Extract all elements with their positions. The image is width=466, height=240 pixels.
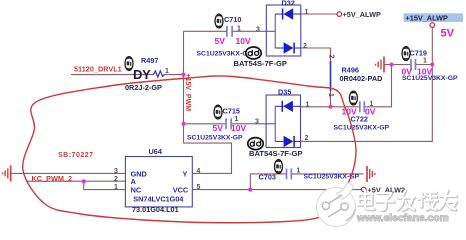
junction node rail/C715 — [182, 122, 186, 126]
svg-text:3: 3 — [255, 119, 259, 126]
svg-text:10V: 10V — [417, 66, 432, 76]
svg-text:R497: R497 — [141, 56, 158, 65]
power port +5V_ALWP — [337, 10, 381, 19]
resistor R497 — [125, 56, 169, 92]
svg-text:+5V_ALWP: +5V_ALWP — [343, 10, 381, 19]
stamp near R497 — [125, 57, 133, 71]
wire D32 pin2 down to R496 — [301, 48, 331, 61]
svg-text:NC: NC — [131, 186, 142, 195]
svg-text:0V: 0V — [365, 107, 376, 117]
inverter U64 — [114, 147, 201, 214]
svg-text:51120_DRVL1: 51120_DRVL1 — [74, 65, 122, 74]
capacitor C715 — [187, 106, 243, 141]
net label 51120_DRVL1 — [74, 65, 122, 74]
svg-text:C710: C710 — [224, 15, 241, 24]
svg-text:1: 1 — [306, 101, 310, 108]
wire C710 to D32 pin3 — [233, 30, 267, 32]
svg-text:1: 1 — [235, 116, 239, 123]
wire C715 to D35 pin3 — [232, 123, 266, 125]
junction node ground/C719 — [390, 63, 394, 67]
svg-text:SC1U25V3KX-GP: SC1U25V3KX-GP — [197, 50, 253, 57]
stamp near C715 — [214, 105, 222, 119]
svg-text:3: 3 — [114, 168, 118, 175]
stamp GP near D32 — [246, 47, 261, 59]
power port +15V_ALWP — [404, 13, 464, 27]
wire KC_PWM_2 to U64 A — [26, 180, 125, 182]
annotation red ellipse — [23, 76, 356, 223]
dual diode D35 — [249, 87, 310, 158]
wire KC_PWM_2 branch to U64 NC — [84, 181, 126, 189]
svg-text:1: 1 — [114, 184, 118, 191]
watermark text 电子发烧友 — [359, 191, 457, 211]
svg-text:2: 2 — [303, 43, 307, 50]
svg-text:D35: D35 — [278, 87, 291, 96]
svg-text:5: 5 — [197, 184, 201, 191]
junction node C719/+15V rail — [430, 63, 434, 67]
wire C722 right to ground riser — [365, 65, 392, 107]
wire +15V_ALWP rail — [301, 28, 433, 142]
wire ground node to C719 — [384, 64, 410, 66]
svg-text:DY: DY — [133, 67, 151, 82]
capacitor C703 — [259, 167, 360, 181]
wire U64 VCC to +5V_ALW2 — [192, 189, 361, 191]
svg-text:SB:70227: SB:70227 — [58, 152, 94, 159]
svg-text:10V: 10V — [231, 123, 246, 133]
svg-text:Y: Y — [183, 169, 188, 178]
ground symbol U64 GND — [3, 165, 11, 181]
svg-text:www.elecfans.com: www.elecfans.com — [356, 213, 449, 224]
svg-text:U64: U64 — [149, 147, 163, 156]
wire rail bottom to C715 — [184, 123, 226, 125]
junction node R497/+15V_PWM — [182, 73, 186, 77]
stamp near C703 — [275, 160, 283, 174]
wire C719 right to +15V rail — [416, 64, 432, 66]
svg-text:5V: 5V — [213, 123, 224, 133]
power port +5V_ALW2 — [362, 186, 406, 195]
svg-text:1: 1 — [305, 9, 309, 16]
svg-text:0R0402-PAD: 0R0402-PAD — [340, 74, 383, 83]
svg-text:C703: C703 — [259, 173, 276, 182]
resistor R496 labels — [327, 55, 382, 98]
wire R497 pin1 to +15V_PWM node — [165, 74, 184, 76]
wire R496 pin1 to node — [330, 91, 332, 107]
ground symbol near C703 — [367, 166, 375, 182]
svg-text:10V: 10V — [236, 36, 251, 46]
watermark logo circle — [317, 183, 356, 227]
svg-text:1: 1 — [423, 58, 427, 65]
ground symbol near R496 — [376, 57, 384, 73]
wire rail to C710 — [184, 30, 227, 32]
svg-text:5V: 5V — [441, 28, 455, 40]
svg-text:10V: 10V — [342, 107, 357, 117]
wire D32 pin1 to +5V_ALWP — [301, 13, 337, 15]
svg-text:2: 2 — [114, 176, 118, 183]
svg-text:4: 4 — [197, 168, 201, 175]
wire D35 pin1 node to C722 — [301, 106, 360, 108]
svg-text:0V: 0V — [402, 66, 413, 76]
svg-text:0R2J-2-GP: 0R2J-2-GP — [125, 83, 162, 92]
dual diode D32 — [234, 0, 309, 68]
capacitor C710 — [197, 15, 253, 57]
annotation text DY — [133, 67, 151, 82]
svg-text:1: 1 — [165, 68, 169, 75]
svg-text:1: 1 — [297, 167, 301, 174]
svg-text:+15V_PWM: +15V_PWM — [184, 74, 191, 112]
svg-text:2: 2 — [305, 135, 309, 142]
svg-text:2: 2 — [328, 55, 335, 59]
stamp near C722 — [349, 91, 357, 105]
svg-text:1: 1 — [327, 93, 334, 97]
svg-text:73.01G04.L01: 73.01G04.L01 — [132, 205, 179, 214]
capacitor C722 — [334, 101, 390, 131]
stamp GP near D35 — [248, 138, 263, 150]
net label +15V_PWM (vertical) — [184, 74, 191, 112]
svg-text:SC1U25V3KX-GP: SC1U25V3KX-GP — [334, 124, 390, 131]
svg-text:VCC: VCC — [173, 186, 189, 195]
svg-text:BAT54S-7F-GP: BAT54S-7F-GP — [234, 59, 287, 68]
svg-text:5V: 5V — [215, 36, 226, 46]
wire 51120_DRVL1 to R497 — [71, 74, 154, 76]
stamp near C710 — [215, 14, 223, 28]
svg-text:C719: C719 — [410, 48, 427, 57]
capacitor C719 — [402, 48, 458, 82]
svg-text:3: 3 — [256, 26, 260, 33]
junction node D35 pin1 — [329, 105, 333, 109]
wire C703 to ground — [292, 173, 364, 175]
svg-text:KC_PWM_2: KC_PWM_2 — [32, 174, 73, 183]
junction node KC_PWM_2 — [82, 179, 86, 183]
wire ground to U64 GND — [11, 172, 125, 174]
svg-text:BAT54S-7F-GP: BAT54S-7F-GP — [249, 149, 302, 158]
svg-text:+15V_ALWP: +15V_ALWP — [406, 13, 449, 22]
svg-text:SC1U25V3KX-GP: SC1U25V3KX-GP — [187, 135, 243, 142]
junction node VCC/C703 — [248, 188, 252, 192]
svg-text:C715: C715 — [223, 106, 240, 115]
stamp near C719 — [402, 47, 410, 61]
wire U64 Y loop — [184, 143, 232, 173]
svg-text:SN74LVC1G04: SN74LVC1G04 — [133, 195, 184, 204]
wire VCC branch to C703 — [250, 174, 286, 190]
resistor R496 body — [330, 61, 332, 91]
svg-text:1: 1 — [237, 26, 241, 33]
wire +15V_PWM vertical rail — [183, 31, 185, 143]
svg-text:D32: D32 — [282, 0, 295, 8]
